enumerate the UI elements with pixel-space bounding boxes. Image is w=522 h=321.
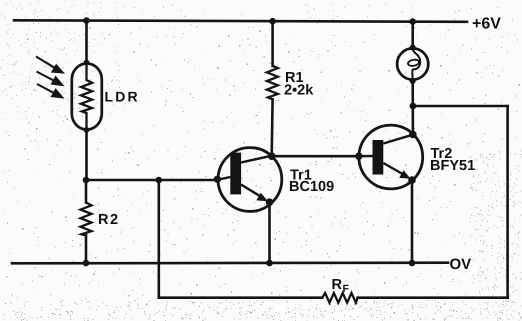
node 0V R2 junction [83, 260, 90, 267]
svg-text:R2: R2 [98, 212, 120, 228]
node lamp top [410, 45, 416, 51]
node base row LDR-R2 junction [83, 177, 90, 184]
transistor Q1 base wire [218, 177, 230, 180]
node LDR bottom [84, 127, 90, 133]
LDR light arrow 3 [37, 84, 62, 97]
node lamp bottom [410, 78, 416, 84]
wire feedback bottom right segment [358, 296, 508, 299]
transistor Q1 base bar [230, 153, 241, 195]
transistor Q2 Tr2 circle [359, 125, 423, 189]
wire feedback top horizontal [413, 105, 508, 108]
resistor R2 zigzag [81, 203, 92, 236]
resistor RF zigzag [322, 293, 357, 303]
wire Tr2 emitter to 0V [411, 180, 414, 263]
wire feedback right vertical [506, 106, 509, 298]
node 0V Tr2 emitter junction [409, 260, 416, 267]
svg-text:OV: OV [450, 256, 472, 273]
node Tr1 emitter [266, 198, 274, 206]
wire R1 top lead [271, 21, 274, 66]
node top rail LDR junction [83, 17, 90, 24]
wire +6V top rail [14, 20, 467, 22]
resistor R1 zigzag [267, 66, 278, 100]
svg-text:LDR: LDR [105, 89, 140, 105]
lamp filament eye [407, 59, 419, 67]
svg-text:BFY51: BFY51 [430, 158, 475, 174]
LDR light arrow 1 [36, 57, 63, 73]
wire feedback bottom left segment [159, 296, 322, 299]
wire R1 bottom lead to Tr1 collector [270, 99, 273, 156]
svg-text:2•2k: 2•2k [284, 83, 314, 99]
wire LDR top lead [85, 21, 88, 63]
wire Tr1 emitter to 0V [268, 202, 271, 263]
wire R2 bottom lead [85, 235, 88, 263]
transistor Q1 emitter stroke [241, 185, 265, 200]
wire lamp bottom lead [411, 80, 414, 135]
wire 0V bottom rail [12, 261, 448, 264]
node Tr1 collector [268, 152, 276, 160]
node top rail R1 junction [269, 18, 276, 25]
transistor Q1 Tr1 circle [218, 148, 282, 212]
node feedback top junction [410, 103, 417, 110]
svg-text:F: F [343, 283, 350, 295]
node Tr2 emitter [408, 176, 416, 184]
lamp LP1 glass circle [397, 48, 428, 79]
transistor Q2 emitter arrowhead [399, 170, 410, 179]
resistor LDR body (capsule) [72, 64, 102, 130]
svg-text:R: R [332, 277, 343, 293]
transistor Q1 collector stroke [241, 156, 271, 163]
transistor Q2 emitter stroke [383, 163, 407, 177]
wire lamp top lead [411, 21, 414, 49]
node Tr1 base [214, 176, 221, 183]
lamp filament curl [412, 49, 420, 79]
node base row feedback junction [156, 177, 163, 184]
resistor LDR zigzag [81, 64, 92, 130]
node Tr2 collector [409, 131, 417, 139]
LDR light arrow 2 [37, 72, 63, 85]
wire LDR bottom lead [85, 129, 88, 180]
wire feedback left vertical [158, 180, 161, 298]
transistor Q1 emitter arrowhead [256, 193, 267, 202]
svg-text:+6V: +6V [472, 16, 501, 33]
transistor Q2 base wire [359, 155, 373, 158]
node LDR top [84, 60, 90, 66]
wire R2 top lead [85, 180, 88, 203]
transistor Q2 base bar [373, 140, 384, 175]
wire Tr1 collector to Tr2 base [272, 155, 359, 158]
node top rail lamp junction [409, 18, 416, 25]
transistor Q2 collector stroke [383, 135, 412, 144]
node 0V Tr1 emitter junction [266, 260, 273, 267]
svg-text:BC109: BC109 [289, 179, 334, 195]
node Tr2 base [355, 153, 362, 160]
wire base node row [86, 179, 217, 182]
